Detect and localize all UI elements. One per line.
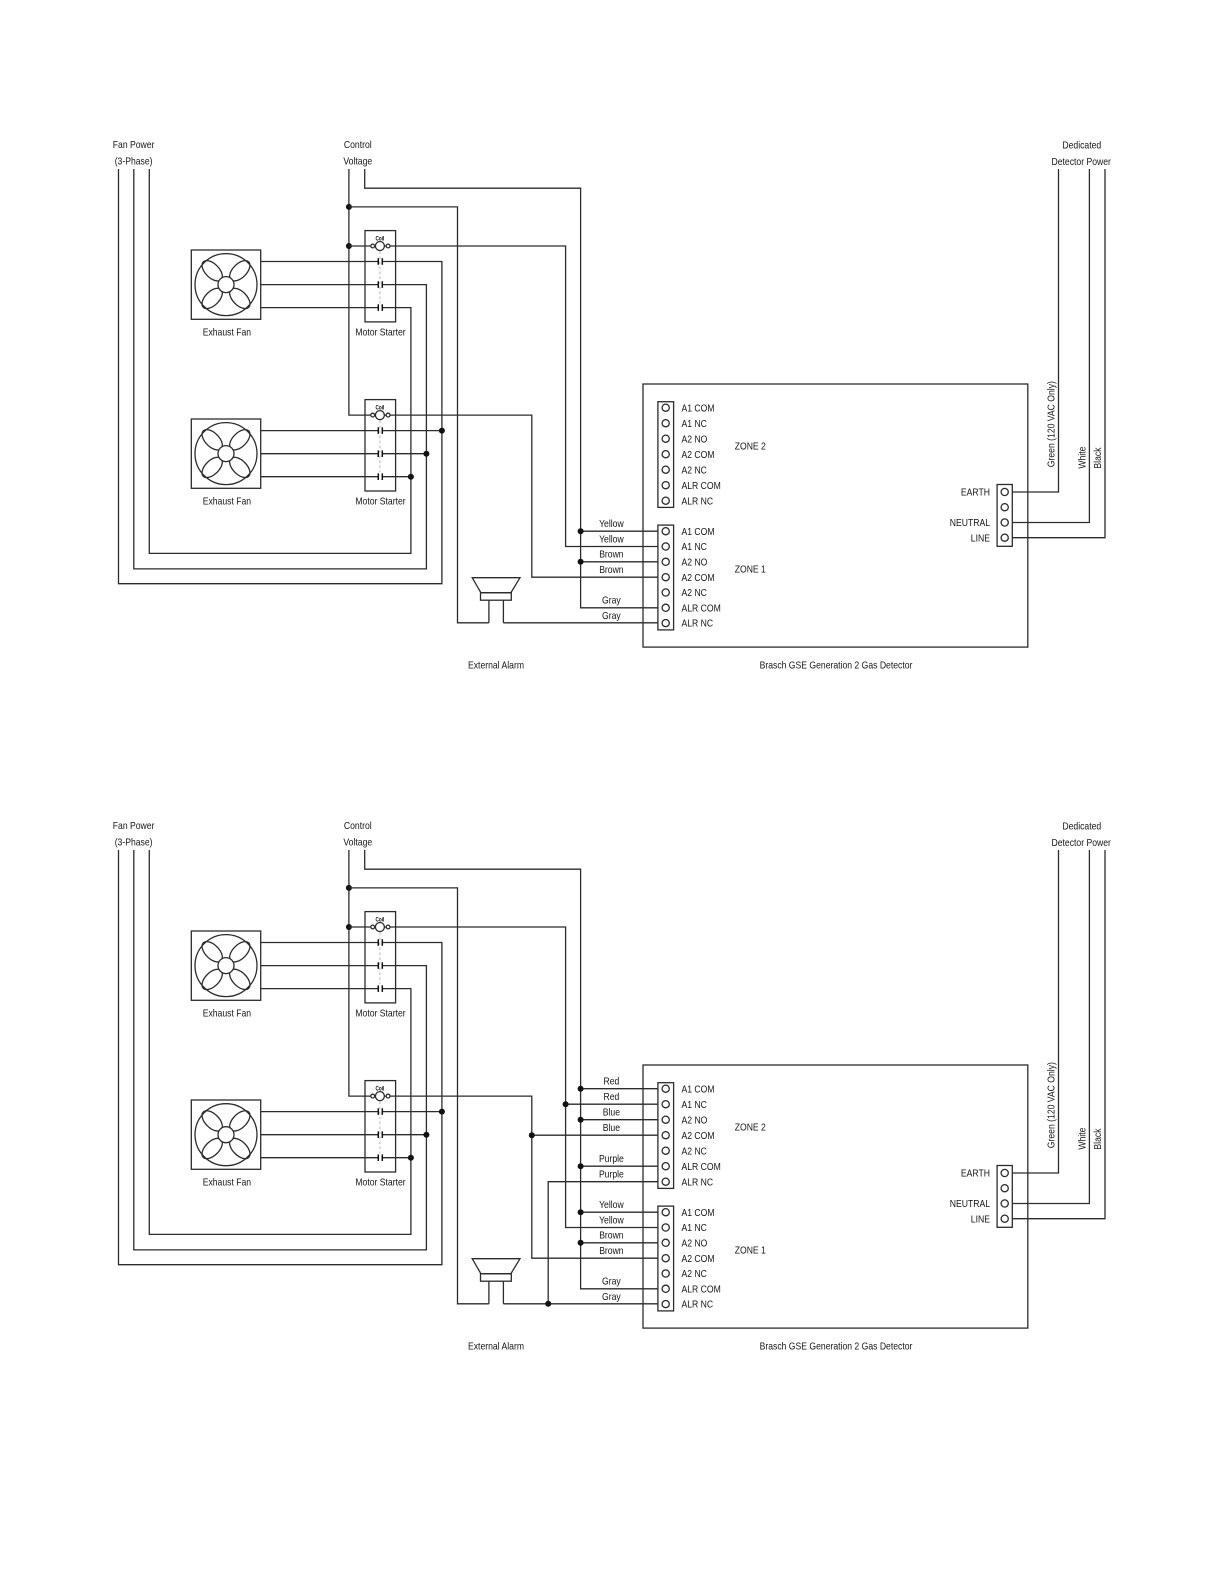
wire phase L2 net bbox=[134, 850, 427, 1250]
contact 3 of M1-1 bbox=[378, 304, 382, 311]
wire neutral to zone2 A1 COM bbox=[581, 1088, 658, 1090]
svg-text:A1 NC: A1 NC bbox=[682, 1100, 707, 1111]
terminal ZONE 2 A1 COM bbox=[662, 404, 669, 411]
svg-text:White: White bbox=[1078, 446, 1089, 468]
svg-text:ZONE 1: ZONE 1 bbox=[735, 1246, 766, 1257]
svg-text:Voltage: Voltage bbox=[343, 157, 372, 168]
svg-text:(3-Phase): (3-Phase) bbox=[115, 838, 153, 849]
svg-text:Black: Black bbox=[1093, 1128, 1104, 1150]
junction phase L2 / M2 contact 2 bbox=[423, 451, 429, 457]
terminal LINE bbox=[1001, 1215, 1008, 1222]
svg-text:Brown: Brown bbox=[599, 1246, 623, 1257]
terminal (spare) bbox=[1001, 504, 1008, 511]
wire fan B1-2 to M1 contact 1 bbox=[261, 942, 379, 944]
junction control hot / alarm feed bbox=[346, 204, 352, 210]
svg-text:Brasch GSE Generation 2 Gas De: Brasch GSE Generation 2 Gas Detector bbox=[760, 661, 913, 672]
junction phase L1 / M2 contact 1 bbox=[439, 1109, 445, 1115]
terminal strip ZONE 2 bbox=[658, 402, 674, 508]
terminal NEUTRAL bbox=[1001, 1200, 1008, 1207]
svg-text:ALR COM: ALR COM bbox=[682, 481, 721, 492]
svg-text:A2 NO: A2 NO bbox=[682, 1238, 708, 1249]
contact 1 of M2-2 bbox=[378, 1108, 382, 1115]
svg-text:Gray: Gray bbox=[602, 611, 621, 622]
svg-text:Motor Starter: Motor Starter bbox=[355, 327, 406, 338]
terminal EARTH bbox=[1001, 1169, 1008, 1176]
svg-text:NEUTRAL: NEUTRAL bbox=[950, 1199, 990, 1210]
svg-text:A2 NO: A2 NO bbox=[682, 557, 708, 568]
coil of M2-2 bbox=[371, 1092, 390, 1101]
svg-text:A2 COM: A2 COM bbox=[682, 1254, 715, 1265]
svg-text:EARTH: EARTH bbox=[961, 1169, 990, 1180]
svg-text:(3-Phase): (3-Phase) bbox=[115, 157, 153, 168]
wire control hot to external alarm bbox=[349, 207, 489, 623]
svg-text:A1 COM: A1 COM bbox=[682, 1208, 715, 1219]
contact 1 of M1-1 bbox=[378, 258, 382, 265]
motor starter M2-2 box bbox=[365, 1081, 396, 1172]
junction phase L3 / M2 contact 3 bbox=[408, 474, 414, 480]
svg-text:Control: Control bbox=[344, 140, 372, 151]
junction phase L3 / M2 contact 3 bbox=[408, 1155, 414, 1161]
junction neutral / zone2 A1 COM bbox=[578, 1086, 584, 1092]
svg-text:ZONE 1: ZONE 1 bbox=[735, 565, 766, 576]
terminal ZONE 2 A2 NO bbox=[662, 1116, 669, 1123]
motor starter M2-1 box bbox=[365, 400, 396, 491]
terminal strip power bbox=[997, 485, 1012, 547]
svg-text:A2 COM: A2 COM bbox=[682, 1131, 715, 1142]
svg-text:Blue: Blue bbox=[603, 1108, 621, 1119]
junction control hot / coil M1 bbox=[346, 243, 352, 249]
wire coil M1 to A1 NC bbox=[349, 246, 658, 547]
svg-text:Gray: Gray bbox=[602, 1277, 621, 1288]
gas detector U2 enclosure bbox=[643, 1065, 1028, 1328]
svg-text:ALR NC: ALR NC bbox=[682, 496, 714, 507]
terminal ZONE 1 ALR NC bbox=[662, 1301, 669, 1308]
terminal ZONE 1 A1 COM bbox=[662, 528, 669, 535]
wire fan B2-1 to M2 contact 3 bbox=[261, 476, 379, 478]
terminal NEUTRAL bbox=[1001, 519, 1008, 526]
contact 3 of M2-2 bbox=[378, 1154, 382, 1161]
terminal ZONE 1 A2 NC bbox=[662, 589, 669, 596]
exhaust fan B1-2 bbox=[191, 931, 260, 1000]
terminal strip ZONE 1 bbox=[658, 525, 674, 630]
wire coil M1 to zone2 A1 NC bbox=[566, 1103, 658, 1105]
terminal (spare) bbox=[1001, 1185, 1008, 1192]
svg-text:ALR NC: ALR NC bbox=[682, 1177, 714, 1188]
svg-text:Yellow: Yellow bbox=[599, 519, 624, 530]
terminal ZONE 2 A1 NC bbox=[662, 420, 669, 427]
exhaust fan B1-1 bbox=[191, 250, 260, 319]
terminal ZONE 1 A1 NC bbox=[662, 543, 669, 550]
svg-text:A2 NC: A2 NC bbox=[682, 465, 707, 476]
wire fan B1-2 to M1 contact 3 bbox=[261, 988, 379, 990]
svg-text:Yellow: Yellow bbox=[599, 1215, 624, 1226]
wire zone2 ALR NC to alarm net bbox=[548, 1182, 658, 1304]
contact 2 of M2-2 bbox=[378, 1131, 382, 1138]
svg-text:ZONE 2: ZONE 2 bbox=[735, 442, 766, 453]
wire M2 contact 3 to phase L3 bbox=[382, 476, 411, 478]
wire NEUTRAL (white) bbox=[1012, 850, 1089, 1204]
wire external alarm to zone1 ALR NC bbox=[503, 1303, 658, 1305]
wire coil M2 to zone2 A2 COM bbox=[532, 1134, 658, 1136]
terminal ZONE 1 ALR COM bbox=[662, 604, 669, 611]
svg-text:A2 NC: A2 NC bbox=[682, 1269, 707, 1280]
svg-text:LINE: LINE bbox=[971, 533, 990, 544]
svg-text:Motor Starter: Motor Starter bbox=[355, 496, 406, 507]
svg-text:NEUTRAL: NEUTRAL bbox=[950, 518, 990, 529]
contact 2 of M1-2 bbox=[378, 962, 382, 969]
svg-text:ALR NC: ALR NC bbox=[682, 619, 714, 630]
wire LINE (black) bbox=[1012, 850, 1105, 1219]
svg-text:Gray: Gray bbox=[602, 1292, 621, 1303]
wire phase L1 net bbox=[119, 850, 442, 1265]
wire M2 contact 1 to phase L1 bbox=[382, 1111, 442, 1113]
svg-text:Brown: Brown bbox=[599, 565, 623, 576]
terminal strip ZONE 1 bbox=[658, 1206, 674, 1311]
wire phase L3 net bbox=[149, 169, 411, 553]
gas detector U1 enclosure bbox=[643, 384, 1028, 647]
svg-text:Yellow: Yellow bbox=[599, 1200, 624, 1211]
svg-text:Yellow: Yellow bbox=[599, 534, 624, 545]
exhaust fan B2-2 bbox=[191, 1100, 260, 1169]
svg-text:Exhaust Fan: Exhaust Fan bbox=[203, 496, 251, 507]
terminal ZONE 1 A2 NO bbox=[662, 1239, 669, 1246]
junction neutral / zone2 ALR COM bbox=[578, 1163, 584, 1169]
wire control voltage neutral bbox=[365, 169, 658, 608]
junction neutral / zone1 A2 NO bbox=[578, 559, 584, 565]
svg-text:A1 COM: A1 COM bbox=[682, 1084, 715, 1095]
junction phase L2 / M2 contact 2 bbox=[423, 1132, 429, 1138]
svg-text:A1 COM: A1 COM bbox=[682, 527, 715, 538]
coil of M1-1 bbox=[371, 242, 390, 251]
wire fan B1-1 to M1 contact 2 bbox=[261, 284, 379, 286]
wire fan B2-1 to M2 contact 2 bbox=[261, 453, 379, 455]
svg-text:Coil: Coil bbox=[376, 405, 385, 412]
mechanical link of M2-1 (dashed) bbox=[379, 421, 381, 473]
svg-text:Exhaust Fan: Exhaust Fan bbox=[203, 327, 251, 338]
svg-text:A2 COM: A2 COM bbox=[682, 573, 715, 584]
svg-text:ALR COM: ALR COM bbox=[682, 1284, 721, 1295]
wire neutral to zone1 A1 COM bbox=[581, 530, 658, 532]
junction control hot / coil M1 bbox=[346, 924, 352, 930]
wire fan B1-2 to M1 contact 2 bbox=[261, 965, 379, 967]
terminal ZONE 2 A1 COM bbox=[662, 1085, 669, 1092]
exhaust fan B2-1 bbox=[191, 419, 260, 488]
wire neutral to zone2 ALR COM bbox=[581, 1165, 658, 1167]
terminal strip ZONE 2 bbox=[658, 1083, 674, 1189]
svg-text:Red: Red bbox=[604, 1092, 620, 1103]
svg-text:ZONE 2: ZONE 2 bbox=[735, 1123, 766, 1134]
terminal ZONE 1 A1 COM bbox=[662, 1209, 669, 1216]
contact 2 of M1-1 bbox=[378, 281, 382, 288]
wire control voltage neutral bbox=[365, 850, 658, 1289]
wire NEUTRAL (white) bbox=[1012, 169, 1089, 523]
contact 2 of M2-1 bbox=[378, 450, 382, 457]
svg-text:Dedicated: Dedicated bbox=[1062, 140, 1101, 151]
svg-text:A2 NC: A2 NC bbox=[682, 588, 707, 599]
junction zone2 ALR NC / alarm wire bbox=[545, 1301, 551, 1307]
external alarm LS (speaker horn) bbox=[472, 578, 520, 623]
wire external alarm to zone1 ALR NC bbox=[503, 622, 658, 624]
svg-text:Gray: Gray bbox=[602, 596, 621, 607]
svg-text:A1 NC: A1 NC bbox=[682, 419, 707, 430]
svg-text:Voltage: Voltage bbox=[343, 838, 372, 849]
mechanical link of M1-2 (dashed) bbox=[379, 933, 381, 985]
junction neutral / zone1 A1 COM bbox=[578, 1209, 584, 1215]
coil of M2-1 bbox=[371, 411, 390, 420]
wire control voltage hot bbox=[349, 169, 658, 577]
wire phase L2 net bbox=[134, 169, 427, 569]
svg-text:ALR COM: ALR COM bbox=[682, 1162, 721, 1173]
svg-text:Purple: Purple bbox=[599, 1154, 624, 1165]
svg-text:Exhaust Fan: Exhaust Fan bbox=[203, 1177, 251, 1188]
wire fan B2-2 to M2 contact 3 bbox=[261, 1157, 379, 1159]
wire EARTH (green) bbox=[1012, 169, 1058, 492]
svg-text:EARTH: EARTH bbox=[961, 488, 990, 499]
wire fan B2-1 to M2 contact 1 bbox=[261, 430, 379, 432]
wire EARTH (green) bbox=[1012, 850, 1058, 1173]
svg-text:Brown: Brown bbox=[599, 550, 623, 561]
terminal ZONE 1 A1 NC bbox=[662, 1224, 669, 1231]
svg-text:A1 NC: A1 NC bbox=[682, 542, 707, 553]
wire fan B2-2 to M2 contact 2 bbox=[261, 1134, 379, 1136]
wire phase L1 net bbox=[119, 169, 442, 584]
wire M2 contact 2 to phase L2 bbox=[382, 453, 426, 455]
terminal ZONE 1 A2 COM bbox=[662, 574, 669, 581]
junction coil M1 / zone2 A1 NC bbox=[563, 1101, 569, 1107]
terminal ZONE 1 ALR NC bbox=[662, 620, 669, 627]
terminal LINE bbox=[1001, 534, 1008, 541]
svg-text:Brasch GSE Generation 2 Gas De: Brasch GSE Generation 2 Gas Detector bbox=[760, 1342, 913, 1353]
motor starter M1-2 box bbox=[365, 912, 396, 1003]
svg-text:Fan Power: Fan Power bbox=[113, 140, 155, 151]
svg-text:Motor Starter: Motor Starter bbox=[355, 1177, 406, 1188]
contact 1 of M2-1 bbox=[378, 427, 382, 434]
svg-text:ALR COM: ALR COM bbox=[682, 603, 721, 614]
svg-text:A1 COM: A1 COM bbox=[682, 403, 715, 414]
junction control hot / alarm feed bbox=[346, 885, 352, 891]
terminal strip power bbox=[997, 1166, 1012, 1228]
mechanical link of M1-1 (dashed) bbox=[379, 252, 381, 304]
svg-text:A2 NO: A2 NO bbox=[682, 1115, 708, 1126]
terminal ZONE 2 A2 NC bbox=[662, 466, 669, 473]
wire LINE (black) bbox=[1012, 169, 1105, 538]
svg-text:White: White bbox=[1078, 1127, 1089, 1149]
terminal ZONE 2 ALR NC bbox=[662, 1178, 669, 1185]
svg-text:External Alarm: External Alarm bbox=[468, 1342, 524, 1353]
terminal ZONE 1 ALR COM bbox=[662, 1285, 669, 1292]
wire coil M1 to A1 NC bbox=[349, 927, 658, 1228]
svg-text:A2 COM: A2 COM bbox=[682, 450, 715, 461]
contact 3 of M1-2 bbox=[378, 985, 382, 992]
terminal ZONE 2 A2 NC bbox=[662, 1147, 669, 1154]
terminal ZONE 1 A2 COM bbox=[662, 1255, 669, 1262]
svg-text:Brown: Brown bbox=[599, 1231, 623, 1242]
svg-text:ALR NC: ALR NC bbox=[682, 1300, 714, 1311]
terminal ZONE 2 ALR NC bbox=[662, 497, 669, 504]
wire M2 contact 1 to phase L1 bbox=[382, 430, 442, 432]
svg-text:Motor Starter: Motor Starter bbox=[355, 1008, 406, 1019]
svg-text:Green (120 VAC Only): Green (120 VAC Only) bbox=[1047, 1062, 1058, 1148]
wire phase L3 net bbox=[149, 850, 411, 1234]
terminal ZONE 2 A2 COM bbox=[662, 451, 669, 458]
terminal ZONE 1 A2 NO bbox=[662, 558, 669, 565]
junction neutral / zone1 A2 NO bbox=[578, 1240, 584, 1246]
wire fan B2-2 to M2 contact 1 bbox=[261, 1111, 379, 1113]
terminal EARTH bbox=[1001, 488, 1008, 495]
svg-text:Red: Red bbox=[604, 1077, 620, 1088]
wire control voltage hot bbox=[349, 850, 658, 1258]
wire control hot to external alarm bbox=[349, 888, 489, 1304]
svg-text:Detector Power: Detector Power bbox=[1052, 838, 1112, 849]
svg-text:LINE: LINE bbox=[971, 1214, 990, 1225]
svg-text:Fan Power: Fan Power bbox=[113, 821, 155, 832]
contact 1 of M1-2 bbox=[378, 939, 382, 946]
motor starter M1-1 box bbox=[365, 231, 396, 322]
svg-text:Purple: Purple bbox=[599, 1170, 624, 1181]
svg-text:Green (120 VAC Only): Green (120 VAC Only) bbox=[1047, 381, 1058, 467]
junction phase L1 / M2 contact 1 bbox=[439, 428, 445, 434]
wire neutral to zone1 A1 COM bbox=[581, 1211, 658, 1213]
svg-text:Dedicated: Dedicated bbox=[1062, 821, 1101, 832]
svg-text:Coil: Coil bbox=[376, 236, 385, 243]
terminal ZONE 2 ALR COM bbox=[662, 482, 669, 489]
junction neutral / zone1 A1 COM bbox=[578, 528, 584, 534]
external alarm LS (speaker horn) bbox=[472, 1259, 520, 1304]
svg-text:Coil: Coil bbox=[376, 1086, 385, 1093]
contact 3 of M2-1 bbox=[378, 473, 382, 480]
terminal ZONE 2 ALR COM bbox=[662, 1163, 669, 1170]
svg-text:Coil: Coil bbox=[376, 917, 385, 924]
svg-text:Black: Black bbox=[1093, 447, 1104, 469]
junction coil M2 / zone2 A2 COM bbox=[529, 1132, 535, 1138]
svg-text:Detector Power: Detector Power bbox=[1052, 157, 1112, 168]
terminal ZONE 2 A1 NC bbox=[662, 1101, 669, 1108]
wire neutral to zone1 A2 NO bbox=[581, 561, 658, 563]
svg-text:A1 NC: A1 NC bbox=[682, 1223, 707, 1234]
wire neutral to zone2 A2 NO bbox=[581, 1119, 658, 1121]
mechanical link of M2-2 (dashed) bbox=[379, 1102, 381, 1154]
junction neutral / zone2 A2 NO bbox=[578, 1117, 584, 1123]
terminal ZONE 2 A2 NO bbox=[662, 435, 669, 442]
wire fan B1-1 to M1 contact 1 bbox=[261, 261, 379, 263]
wire fan B1-1 to M1 contact 3 bbox=[261, 307, 379, 309]
coil of M1-2 bbox=[371, 923, 390, 932]
svg-text:A2 NC: A2 NC bbox=[682, 1146, 707, 1157]
terminal ZONE 1 A2 NC bbox=[662, 1270, 669, 1277]
svg-text:Exhaust Fan: Exhaust Fan bbox=[203, 1008, 251, 1019]
svg-text:External Alarm: External Alarm bbox=[468, 661, 524, 672]
wire M2 contact 3 to phase L3 bbox=[382, 1157, 411, 1159]
svg-text:Control: Control bbox=[344, 821, 372, 832]
terminal ZONE 2 A2 COM bbox=[662, 1132, 669, 1139]
wire neutral to zone1 A2 NO bbox=[581, 1242, 658, 1244]
svg-text:Blue: Blue bbox=[603, 1123, 621, 1134]
svg-text:A2 NO: A2 NO bbox=[682, 434, 708, 445]
wire M2 contact 2 to phase L2 bbox=[382, 1134, 426, 1136]
